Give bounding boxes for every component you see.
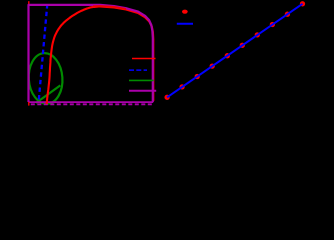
blue line over dots (right panel) bbox=[167, 4, 302, 98]
red spike at pulse onset bbox=[28, 1, 30, 105]
blue dashed short horizontal line (legend level) bbox=[129, 69, 147, 71]
red data dots (right panel) bbox=[164, 1, 305, 100]
red rising curve (left panel) bbox=[47, 7, 154, 105]
green loop ellipse (left panel) bbox=[27, 52, 64, 105]
purple pulse outline (left panel) bbox=[29, 5, 153, 102]
purple solid baseline bbox=[29, 101, 154, 103]
purple short horizontal line (legend level) bbox=[129, 90, 156, 92]
legend red dot marker (right panel) bbox=[182, 10, 188, 14]
green short horizontal line (legend level) bbox=[129, 79, 154, 81]
red short horizontal line (legend level) bbox=[132, 58, 156, 60]
red overlay on plateau where red curve rides over purple bbox=[93, 6, 126, 9]
purple dashed baseline bbox=[31, 103, 153, 105]
legend blue line (right panel) bbox=[177, 23, 193, 25]
green diagonal chord (left panel) bbox=[36, 85, 60, 103]
blue dashed slanted line (left panel) bbox=[39, 4, 48, 101]
